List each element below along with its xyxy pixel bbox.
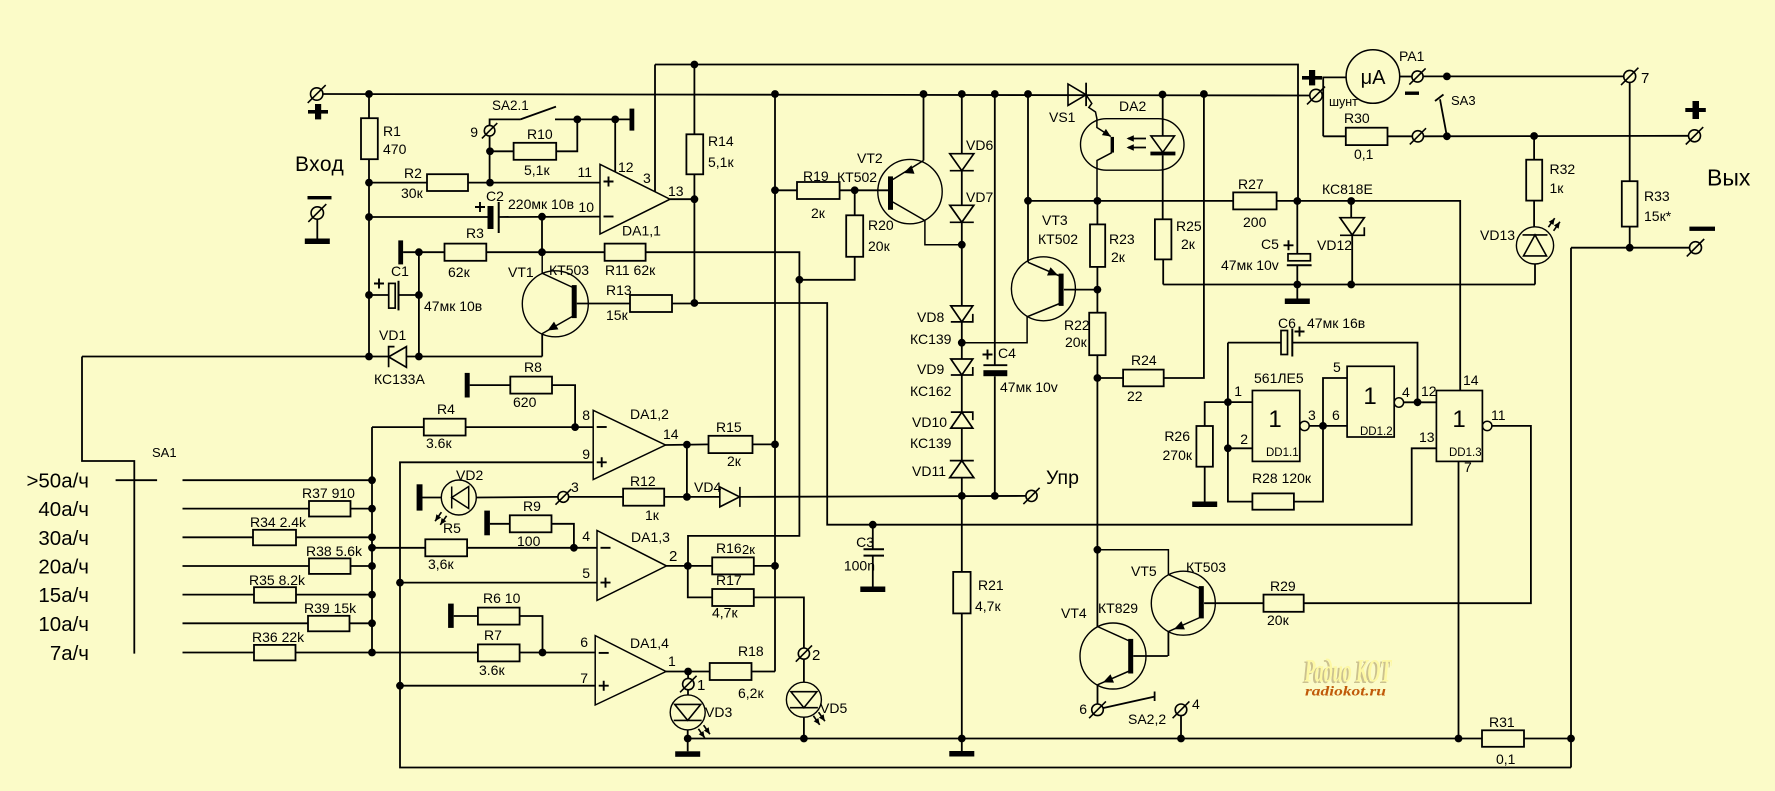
diode VD2 inner <box>452 487 469 509</box>
junction C1 right <box>415 291 423 299</box>
svg-text:R13: R13 <box>606 282 632 298</box>
junction VT5 collector <box>1094 546 1102 554</box>
rail tap bar R8 <box>465 373 470 398</box>
wire DD1.3 pin7 down <box>1458 461 1460 738</box>
terminal 2 <box>796 645 812 661</box>
svg-text:КС139: КС139 <box>910 435 952 451</box>
wire VT4 emitter lead <box>1098 671 1131 685</box>
svg-text:1к: 1к <box>1550 180 1565 196</box>
svg-text:561ЛЕ5: 561ЛЕ5 <box>1254 370 1304 386</box>
wire R16 right <box>754 565 775 567</box>
diode VD8 zener <box>951 306 973 322</box>
svg-text:КС162: КС162 <box>910 383 952 399</box>
LED VD5 <box>786 682 821 717</box>
transistor VT3 <box>1011 257 1075 321</box>
wire VD12 bottom <box>1351 235 1353 284</box>
resistor R25 <box>1155 219 1172 259</box>
minus in DA1,3 <box>601 547 611 549</box>
meter PA1 <box>1346 50 1400 104</box>
svg-text:VD8: VD8 <box>917 309 944 325</box>
resistor R27 <box>1233 192 1276 209</box>
svg-text:47мк 10в: 47мк 10в <box>424 298 482 314</box>
svg-text:R12: R12 <box>630 473 656 489</box>
capacitor C2 <box>488 206 494 229</box>
wire VD4 to Upr <box>740 496 1026 497</box>
svg-text:R25: R25 <box>1176 218 1202 234</box>
svg-text:6: 6 <box>580 634 588 650</box>
svg-text:20к: 20к <box>868 238 891 254</box>
junction pin11 wire <box>486 179 494 187</box>
wire terminal7 down <box>1629 82 1631 181</box>
svg-text:5: 5 <box>1333 359 1341 375</box>
wire to terminal 7 <box>1423 75 1624 77</box>
wire R31 right <box>1524 738 1571 740</box>
wire VT1 collector to R3 line <box>541 217 543 253</box>
plus sign C2 <box>475 202 485 212</box>
junction output 13 <box>691 195 699 203</box>
wire VT1 base to R13 <box>577 303 630 305</box>
wire R30 left <box>1323 135 1346 137</box>
rail tap bar SA2.1 <box>630 109 635 131</box>
plus in DA1,2 <box>597 457 607 467</box>
wire line A <box>688 738 1482 740</box>
wire VD2 to terminal3 <box>476 496 558 499</box>
capacitor C3 <box>864 548 885 550</box>
phototransistor DA2 bar <box>1111 137 1114 153</box>
wire C2 left <box>369 216 488 218</box>
svg-text:R38 5.6k: R38 5.6k <box>306 543 363 559</box>
wire row4 <box>183 565 310 567</box>
junction DA2 LED rail <box>1159 91 1167 99</box>
resistor R23 <box>1090 224 1105 267</box>
wire row1 <box>183 479 373 481</box>
svg-text:R21: R21 <box>978 577 1004 593</box>
resistor R28 <box>1252 493 1294 509</box>
junction R3 line <box>538 248 546 256</box>
svg-text:30к: 30к <box>401 185 424 201</box>
wire row2 <box>183 508 310 510</box>
svg-text:10а/ч: 10а/ч <box>38 613 89 636</box>
terminal output minus <box>1687 239 1704 256</box>
wire R29 to DD1.3 out <box>1304 426 1531 603</box>
svg-text:R15: R15 <box>716 419 742 435</box>
svg-text:5,1к: 5,1к <box>524 162 550 178</box>
wire gnd mid stem <box>961 739 963 752</box>
wire C3 gnd stem <box>872 556 874 587</box>
wire row6 <box>183 622 309 624</box>
op-amp DA1,3 <box>597 531 667 601</box>
junction R10 left <box>486 147 494 155</box>
wire R13 node to DD1.3 pin13 <box>694 303 1436 525</box>
wire R2 to pin11 <box>468 182 600 184</box>
junction bus row <box>368 619 376 627</box>
resistor R31 <box>1482 730 1524 747</box>
svg-text:SA1: SA1 <box>152 445 177 460</box>
wire R33 bottom <box>1629 227 1631 248</box>
svg-text:1: 1 <box>1234 383 1242 399</box>
rail tap bar R3 <box>398 240 403 264</box>
op-amp DA1,1 <box>600 164 670 234</box>
wire row7 <box>183 652 255 654</box>
junction R16 x775 <box>771 562 779 570</box>
wire DA1,1 output <box>670 198 694 200</box>
wire R19 to VT2 base <box>840 189 888 191</box>
svg-text:8: 8 <box>582 407 590 423</box>
svg-text:7: 7 <box>1464 459 1472 475</box>
junction C1 top <box>415 248 423 256</box>
svg-text:20а/ч: 20а/ч <box>38 556 89 579</box>
svg-text:20к: 20к <box>1267 612 1290 628</box>
wire top rail to C5 <box>655 65 1298 202</box>
svg-text:3: 3 <box>571 479 579 495</box>
transistor VT4 <box>1080 623 1146 689</box>
wire R14 bottom / out13 <box>693 174 695 303</box>
svg-text:R28 120к: R28 120к <box>1252 470 1312 486</box>
wire output minus row <box>1571 247 1690 249</box>
svg-text:40а/ч: 40а/ч <box>38 498 89 521</box>
junction R24 rail <box>1200 90 1208 98</box>
wire stab rail to R27 <box>1028 200 1233 202</box>
terminal 7 <box>1621 68 1638 85</box>
svg-text:2к: 2к <box>811 205 826 221</box>
wire row5 <box>183 594 255 596</box>
minus sign PA1 <box>1405 92 1419 95</box>
plus sign shunt <box>1302 76 1322 80</box>
junction R8 right <box>571 423 579 431</box>
svg-text:22: 22 <box>1127 388 1143 404</box>
junction C5 gnd rail <box>1293 281 1301 289</box>
junction VD12 gnd rail <box>1347 281 1355 289</box>
resistor R34 <box>253 530 296 546</box>
diode VD12 zener <box>1340 218 1364 236</box>
wire VT2 collector <box>893 202 963 245</box>
junction pin12 wire <box>611 116 619 124</box>
diode VD10 zener <box>951 412 973 428</box>
svg-text:13: 13 <box>668 183 684 199</box>
svg-text:R14: R14 <box>708 133 734 149</box>
plus sign C5 <box>1284 240 1294 250</box>
svg-text:C5: C5 <box>1261 236 1279 252</box>
svg-text:R39 15k: R39 15k <box>304 600 357 616</box>
svg-text:VD2: VD2 <box>456 467 483 483</box>
wire terminal2 to VD5 <box>803 659 805 682</box>
junction R31 right <box>1567 735 1575 743</box>
junction SA3 bottom <box>1443 132 1451 140</box>
wire meter right <box>1400 76 1412 78</box>
wire VD8-VD9 <box>961 322 963 359</box>
svg-text:15а/ч: 15а/ч <box>38 584 89 607</box>
svg-text:VD11: VD11 <box>912 463 946 479</box>
resistor R4 <box>424 419 466 436</box>
svg-text:C3: C3 <box>856 534 874 550</box>
inverter circle DD1.2 <box>1394 398 1403 407</box>
resistor R32 <box>1526 160 1542 201</box>
op-amp DA1,4 <box>595 636 666 705</box>
wire DA1,2 out <box>666 443 709 446</box>
wire to output plus <box>1424 135 1689 138</box>
svg-text:DA1,1: DA1,1 <box>622 223 661 239</box>
minus in DA1,2 <box>597 426 607 428</box>
minus in DA1,4 <box>599 652 609 654</box>
wire C5 bottom stem <box>1296 265 1298 298</box>
junction VD5 line A <box>800 735 808 743</box>
svg-text:9: 9 <box>470 124 478 140</box>
junction output minus <box>1626 244 1634 252</box>
svg-text:VD9: VD9 <box>917 361 944 377</box>
junction C3 top <box>869 521 877 529</box>
wire R13 right <box>672 303 694 305</box>
wire VT3 emitter vertical <box>1027 94 1029 262</box>
wire C2 to pin10 <box>499 216 600 218</box>
svg-text:200: 200 <box>1243 214 1267 230</box>
wire R2 left <box>369 182 427 184</box>
svg-text:2: 2 <box>669 548 677 565</box>
wire VT2 emitter lead <box>893 161 924 180</box>
inverter circle DD1.3 <box>1483 421 1492 430</box>
wire common node vertical x775 <box>774 94 776 672</box>
svg-text:1: 1 <box>1452 406 1465 433</box>
wire out14 down to VD4 line <box>686 445 688 497</box>
wire bar to VD2 <box>423 497 442 499</box>
plus sign C4 <box>983 350 993 360</box>
terminal 3 <box>555 489 571 505</box>
wire R35 right <box>296 594 372 596</box>
transistor VT5 <box>1151 571 1215 635</box>
switch SA2,2 blade <box>1103 697 1154 708</box>
wire DD1.1 pin1 <box>1228 401 1253 403</box>
wire R10 right up <box>556 119 577 151</box>
svg-text:DA2: DA2 <box>1119 98 1146 114</box>
wire R6 right down <box>520 616 543 653</box>
svg-text:R27: R27 <box>1238 176 1264 192</box>
svg-text:620: 620 <box>513 394 537 410</box>
junction bus row <box>368 562 376 570</box>
svg-text:R24: R24 <box>1131 352 1157 368</box>
svg-text:4,7к: 4,7к <box>975 598 1001 614</box>
svg-text:DA1,4: DA1,4 <box>630 635 669 651</box>
svg-text:2к: 2к <box>1181 236 1196 252</box>
wire R18 right <box>752 671 776 673</box>
wire R30 right <box>1388 135 1413 137</box>
junction C4 Upr line <box>991 492 999 500</box>
diode VD6 <box>950 154 974 171</box>
junction bus row <box>368 505 376 513</box>
capacitor C6 <box>1281 331 1288 355</box>
svg-text:VD12: VD12 <box>1317 237 1352 253</box>
svg-text:VD10: VD10 <box>912 414 947 430</box>
junction pin7 line A <box>1455 735 1463 743</box>
wire R17 to terminal2 <box>754 597 804 648</box>
resistor R18 <box>710 663 752 680</box>
svg-text:R32: R32 <box>1550 161 1576 177</box>
resistor R24 <box>1123 370 1164 387</box>
transistor VT2 <box>878 159 942 223</box>
wire R4 left <box>372 426 424 428</box>
svg-text:Вход: Вход <box>295 153 344 176</box>
wire to SA1 pole <box>82 357 134 654</box>
junction R23 top <box>1094 197 1102 205</box>
junction VT3 base R23 R22 <box>1094 286 1102 294</box>
wire R15 right <box>753 443 776 445</box>
svg-text:VT1: VT1 <box>508 264 534 280</box>
svg-text:R1: R1 <box>383 123 401 139</box>
wire row3 <box>183 536 254 538</box>
svg-text:R16: R16 <box>716 540 742 556</box>
svg-text:DA1,3: DA1,3 <box>631 529 670 545</box>
arrow VT1 emitter <box>548 322 559 331</box>
diode VD4 <box>720 487 740 507</box>
wire bus to R5 <box>372 547 425 549</box>
terminal shunt plus <box>1307 87 1325 105</box>
svg-text:0,1: 0,1 <box>1354 146 1374 162</box>
svg-text:6: 6 <box>1332 407 1340 423</box>
light arrows DA2 <box>1128 138 1146 140</box>
wire VD7 down <box>961 222 963 306</box>
wire C4 bottom <box>994 376 996 496</box>
wire VD13 bottom <box>1534 264 1536 285</box>
svg-text:R18: R18 <box>738 643 764 659</box>
terminal input minus <box>308 204 326 222</box>
svg-text:R29: R29 <box>1270 578 1296 594</box>
resistor R2 <box>427 174 468 191</box>
svg-text:3,6к: 3,6к <box>428 556 454 572</box>
wire VD9-VD10 <box>961 375 963 412</box>
svg-text:6,2к: 6,2к <box>738 685 764 701</box>
svg-text:R22: R22 <box>1064 317 1090 333</box>
arrow VT5 emitter <box>1174 621 1185 629</box>
svg-text:15к: 15к <box>606 307 629 323</box>
svg-text:VD6: VD6 <box>966 137 993 153</box>
wire to R26 <box>1205 402 1228 426</box>
wire out1 to terminal1 <box>687 672 689 679</box>
rail tap bar VD2 <box>417 484 423 510</box>
resistor R39 <box>308 616 350 632</box>
svg-text:R3: R3 <box>466 225 484 241</box>
wire pin12 stem <box>614 119 616 172</box>
svg-text:VT2: VT2 <box>857 150 883 166</box>
svg-text:C6: C6 <box>1278 315 1296 331</box>
terminal 4 SA2,2 <box>1173 701 1190 718</box>
wire shunt to meter <box>1323 77 1346 136</box>
terminal output plus <box>1686 127 1703 144</box>
wire terminal1 to VD3 <box>687 690 689 695</box>
wire VT1 emitter lead <box>542 316 574 334</box>
wire R4 to pin8 <box>466 426 594 428</box>
junction bus R5 <box>368 544 376 552</box>
wire C1 right <box>399 294 419 296</box>
junction VT3 rail <box>1024 90 1032 98</box>
svg-text:100: 100 <box>517 533 541 549</box>
wire VD3 bottom <box>687 730 689 739</box>
wire R12 to VD4 <box>664 496 720 498</box>
svg-text:3: 3 <box>1308 407 1316 423</box>
wire R25 bottom <box>1162 259 1164 284</box>
resistor R12 <box>623 489 664 506</box>
svg-text:R17: R17 <box>716 572 742 588</box>
svg-text:C4: C4 <box>998 345 1016 361</box>
svg-text:R30: R30 <box>1344 110 1370 126</box>
wire opto emitter <box>1097 153 1112 201</box>
diode VD9 zener <box>951 359 973 375</box>
wire R24 right up <box>1164 94 1204 378</box>
svg-text:КТ503: КТ503 <box>549 262 589 278</box>
junction opto emitter rail <box>1024 197 1032 205</box>
diode VD11 <box>950 461 974 478</box>
wire bar to R8 <box>470 384 511 386</box>
resistor R36 <box>254 645 296 661</box>
wire C6 right down <box>1292 343 1417 403</box>
svg-text:R26: R26 <box>1164 428 1190 444</box>
wire pin5 tie <box>1323 378 1347 426</box>
led arrows VD3 <box>698 725 710 738</box>
minus sign input <box>308 196 332 199</box>
junction VD3 line A <box>684 735 692 743</box>
junction VT3 collector <box>958 339 966 347</box>
junction R1 rail <box>365 90 373 98</box>
junction R10 right <box>573 116 581 124</box>
junction C1 left <box>365 291 373 299</box>
junction C2 line <box>365 213 373 221</box>
LED VD13 <box>1516 227 1553 264</box>
svg-text:4: 4 <box>582 528 590 544</box>
junction R7 R6 <box>539 649 547 657</box>
svg-text:КТ502: КТ502 <box>1038 231 1078 247</box>
switch SA3 blade <box>1440 99 1447 136</box>
wire terminal jog <box>1322 95 1324 97</box>
resistor R29 <box>1264 595 1304 612</box>
svg-text:R31: R31 <box>1489 714 1515 730</box>
wire VT3 base <box>1064 289 1097 291</box>
diode VD1 zener <box>389 347 407 368</box>
wire VD6-VD7 <box>961 171 963 206</box>
svg-text:2к: 2к <box>742 542 755 557</box>
plus sign output <box>1685 108 1706 112</box>
junction bus row <box>368 649 376 657</box>
wire to VD6 <box>961 94 963 154</box>
plus sign input <box>308 110 328 114</box>
junction pin7 bus <box>396 682 404 690</box>
svg-text:30а/ч: 30а/ч <box>38 527 89 550</box>
svg-text:11: 11 <box>1491 407 1506 423</box>
svg-text:Упр: Упр <box>1046 467 1079 489</box>
resistor R9 <box>510 515 552 532</box>
wire terminal9 down <box>489 136 491 183</box>
junction VD12 top <box>1347 197 1355 205</box>
terminal 1 <box>680 676 697 693</box>
svg-text:PA1: PA1 <box>1399 48 1425 64</box>
junction R20 top <box>851 186 859 194</box>
terminal input plus <box>308 85 326 103</box>
svg-text:6: 6 <box>1079 701 1087 717</box>
transistor VT1 <box>522 271 588 337</box>
svg-text:R23: R23 <box>1109 231 1135 247</box>
wire R11 feedback to DA1,3 out <box>646 252 800 566</box>
wire R34 right <box>296 536 372 538</box>
svg-text:R10: R10 <box>527 126 553 142</box>
wire VD1 row left <box>82 356 389 358</box>
svg-text:VT4: VT4 <box>1061 605 1087 621</box>
resistor R20 <box>846 215 863 256</box>
svg-text:2к: 2к <box>1111 249 1126 265</box>
svg-text:КТ829: КТ829 <box>1098 600 1138 616</box>
svg-text:DD1.2: DD1.2 <box>1360 426 1393 438</box>
svg-text:220мк 10в: 220мк 10в <box>508 196 574 212</box>
wire right return vertical <box>1570 248 1572 768</box>
svg-text:1к: 1к <box>645 507 660 523</box>
svg-text:5,1к: 5,1к <box>708 154 734 170</box>
wire SA2.1 pole <box>490 119 521 125</box>
svg-text:4,7к: 4,7к <box>712 605 738 621</box>
